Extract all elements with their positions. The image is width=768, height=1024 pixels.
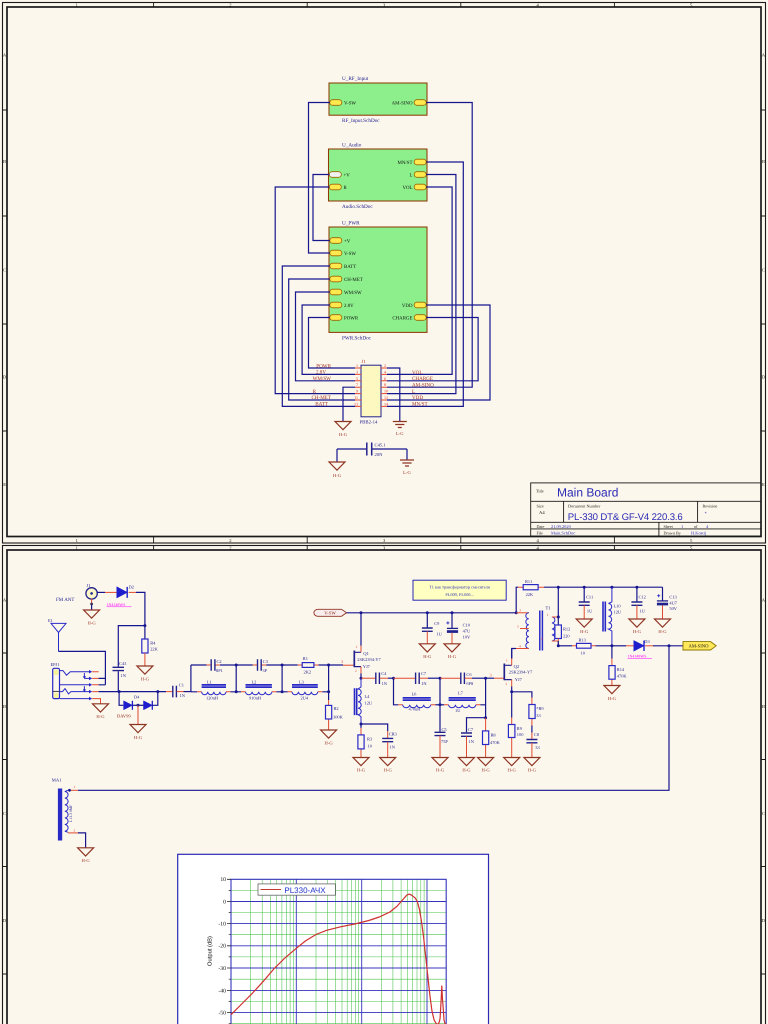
svg-text:470K: 470K xyxy=(490,740,501,745)
svg-text:1N: 1N xyxy=(121,673,127,678)
svg-text:C43: C43 xyxy=(119,661,127,666)
sheet entry AM-SINO on U_RF_Input xyxy=(392,100,427,107)
svg-text:V-SW: V-SW xyxy=(344,251,356,257)
svg-text:B: B xyxy=(3,159,6,164)
svg-text:C1: C1 xyxy=(179,683,184,688)
sheet entry VOL on U_Audio xyxy=(402,184,426,191)
svg-text:3: 3 xyxy=(519,608,521,612)
junction Q1 drain at rail xyxy=(360,611,363,614)
pin stub C11 bottom xyxy=(583,605,585,619)
wire +V net Audio to PWR xyxy=(313,175,330,241)
svg-text:3: 3 xyxy=(356,369,358,374)
wire AM-SINO down to MA1 xyxy=(78,646,669,791)
svg-text:11: 11 xyxy=(354,395,358,400)
svg-text:-10: -10 xyxy=(218,922,226,928)
ground H-G under C13 xyxy=(655,619,671,634)
svg-text:POWR: POWR xyxy=(316,363,331,369)
wire L6 left leg xyxy=(394,678,399,705)
svg-text:10: 10 xyxy=(220,877,226,883)
svg-text:C45.1: C45.1 xyxy=(375,443,387,448)
svg-text:H-G: H-G xyxy=(423,654,432,659)
wire L7 right leg xyxy=(480,678,485,718)
wire CHARGE net to J1 pin6 xyxy=(387,318,478,381)
wire C45.1 right xyxy=(372,449,407,460)
inductor L10 xyxy=(603,587,622,646)
junction C11 at top rail xyxy=(583,586,586,589)
J1 pin stubs xyxy=(355,368,387,406)
wire C1 to filter xyxy=(184,691,191,693)
svg-text:V-SW: V-SW xyxy=(344,101,356,107)
svg-text:1N: 1N xyxy=(382,681,388,686)
svg-text:C5: C5 xyxy=(442,727,448,732)
J1 left net labels xyxy=(311,363,331,407)
junction L6/L7 bottom xyxy=(439,703,442,706)
capacitor C3 xyxy=(253,659,269,673)
resistor R2 xyxy=(326,700,344,730)
svg-text:2: 2 xyxy=(384,363,386,368)
pin stub T1 pin4 xyxy=(516,648,529,650)
svg-text:12: 12 xyxy=(384,395,388,400)
svg-text:Sheet: Sheet xyxy=(664,524,674,529)
svg-text:1: 1 xyxy=(74,785,76,789)
svg-text:6: 6 xyxy=(384,376,386,381)
svg-text:R13: R13 xyxy=(579,637,587,642)
sheet entry 2.8V on U_PWR xyxy=(330,302,354,309)
pin stub C12 bottom xyxy=(636,605,638,619)
svg-text:EPJ1: EPJ1 xyxy=(51,662,60,667)
ground H-G under C5 xyxy=(432,758,448,773)
junction R11 rail at T1 branch xyxy=(557,586,560,589)
pin stub MA1 pin1 xyxy=(68,789,78,791)
pin stub C4 left xyxy=(361,677,375,679)
pin stub C7 series left xyxy=(394,677,416,679)
ground H-G under EPJ1 xyxy=(93,704,109,719)
wire BATT net to J1 pin13 xyxy=(282,266,355,406)
sheet entry WM/SW on U_PWR xyxy=(330,289,362,296)
svg-text:H-G: H-G xyxy=(608,696,617,701)
chart major grid blue xyxy=(231,879,446,1024)
ground H-G under R14 xyxy=(604,686,620,701)
wire VDD net to J1 pin12 xyxy=(387,305,490,400)
sheet entry L on U_Audio xyxy=(410,172,427,179)
svg-text:PBB2-14: PBB2-14 xyxy=(360,420,378,426)
svg-text:R11: R11 xyxy=(525,579,532,584)
svg-text:L2: L2 xyxy=(252,680,257,685)
inductor L1 xyxy=(197,680,230,701)
svg-text:MA1: MA1 xyxy=(52,778,62,783)
capacitor C43 xyxy=(113,661,128,678)
junction at C43 top xyxy=(143,624,146,627)
svg-text:WM/SW: WM/SW xyxy=(313,376,332,382)
capacitor C2 xyxy=(207,659,223,673)
junction L6 left top xyxy=(392,677,395,680)
chart curve PL330 AFC xyxy=(231,894,446,1024)
wire BAV99 left leg xyxy=(119,692,123,706)
ground H-G under R2 xyxy=(321,730,337,746)
svg-text:Revision: Revision xyxy=(703,503,719,508)
page1 wires xyxy=(275,103,490,422)
svg-text:H-G: H-G xyxy=(384,768,393,773)
svg-text:PWR.SchDoc: PWR.SchDoc xyxy=(342,336,372,342)
svg-text:*R9: *R9 xyxy=(536,706,544,711)
wire filter stage verticals xyxy=(236,665,328,700)
svg-text:L4: L4 xyxy=(365,694,371,699)
svg-text:H-G: H-G xyxy=(448,654,457,659)
svg-text:BAV99: BAV99 xyxy=(117,714,131,719)
inductor L4 xyxy=(355,678,373,724)
svg-text:C7: C7 xyxy=(468,727,474,732)
svg-text:H-G: H-G xyxy=(482,768,491,773)
sheet symbol U_RF_Input xyxy=(329,76,427,124)
svg-text:8: 8 xyxy=(384,382,386,387)
svg-text:50V: 50V xyxy=(669,606,677,611)
svg-text:D2: D2 xyxy=(129,585,134,590)
svg-text:C13: C13 xyxy=(669,595,677,600)
pin stub C8 bottom xyxy=(531,743,533,758)
capacitor C1 xyxy=(173,683,186,699)
capacitor C12 xyxy=(631,587,645,613)
svg-text:H-G: H-G xyxy=(580,629,589,634)
svg-text:100: 100 xyxy=(517,732,524,737)
transistor Q2 2SK2394-Y7 xyxy=(504,649,533,692)
wire J1 to D2 xyxy=(97,591,105,593)
sheet entry CH-MET on U_PWR xyxy=(330,276,363,283)
note box T1 mixer transformer xyxy=(413,580,506,600)
svg-text:PL330-АЧХ: PL330-АЧХ xyxy=(284,886,326,895)
svg-text:H-G: H-G xyxy=(633,629,642,634)
diode D4 BAV99 xyxy=(117,695,152,719)
svg-text:2.8V: 2.8V xyxy=(344,303,354,309)
svg-text:1N: 1N xyxy=(180,693,186,698)
capacitor C9 xyxy=(422,613,443,637)
wire L4 bottom to CR3 xyxy=(361,724,388,731)
svg-text:H.Kostrj: H.Kostrj xyxy=(691,530,706,535)
capacitor C5 xyxy=(435,727,449,744)
wire Q2 source to R9b branch xyxy=(512,692,532,698)
svg-text:L: L xyxy=(410,173,413,179)
junction C12 at top rail xyxy=(635,586,638,589)
svg-text:-40: -40 xyxy=(218,988,226,994)
svg-text:YJ7: YJ7 xyxy=(515,677,523,682)
svg-text:2K2: 2K2 xyxy=(304,670,312,675)
sheet entry V-SW on U_RF_Input xyxy=(330,100,357,107)
pin stub T1 pin5 xyxy=(520,628,529,630)
svg-text:A4: A4 xyxy=(539,510,545,515)
svg-text:File: File xyxy=(537,530,544,535)
earphone jack EPJ1 xyxy=(51,662,93,700)
svg-text:MN/ST: MN/ST xyxy=(412,402,428,408)
junction rail to R11/T1 xyxy=(515,611,518,614)
svg-text:H-G: H-G xyxy=(82,858,91,863)
svg-text:L6: L6 xyxy=(412,691,418,696)
power port V-SW xyxy=(314,609,347,616)
capacitor C4 xyxy=(376,671,388,686)
wire EPJ1 row2/row3 to antenna vertical xyxy=(99,678,106,684)
svg-text:5: 5 xyxy=(356,376,358,381)
chart y axis ticks xyxy=(227,879,231,1012)
wire filter bottom rail xyxy=(191,691,329,693)
svg-text:2SK2394-Y7: 2SK2394-Y7 xyxy=(357,657,381,662)
connector J1 FM ANT xyxy=(56,583,97,603)
sheet entry CHARGE on U_PWR xyxy=(392,315,426,322)
ground H-G under D4 xyxy=(130,725,146,741)
svg-text:C6: C6 xyxy=(466,672,472,677)
svg-text:V-SW: V-SW xyxy=(324,611,336,617)
resistor R3 xyxy=(358,724,373,758)
ground H-G under J1 pin7 xyxy=(335,422,351,438)
sheet entry VDD on U_PWR xyxy=(402,302,426,309)
wire C45.1 left xyxy=(337,449,366,462)
svg-text:VOL: VOL xyxy=(402,185,412,191)
svg-text:L10: L10 xyxy=(614,603,622,608)
svg-text:CH-MET: CH-MET xyxy=(311,395,331,401)
pin stub C4 right xyxy=(380,677,388,679)
capacitor C45.1 xyxy=(367,443,387,458)
svg-text:10V: 10V xyxy=(463,634,471,639)
magnetic antenna MA1 xyxy=(52,778,76,841)
svg-text:22K: 22K xyxy=(526,592,534,597)
capacitor C10 electrolytic xyxy=(446,613,471,640)
svg-text:CHARGE: CHARGE xyxy=(412,376,433,382)
svg-text:RF_Input.SchDoc: RF_Input.SchDoc xyxy=(342,118,380,124)
pin dot under J1 xyxy=(90,603,93,606)
J1 pin numbers xyxy=(354,363,388,406)
ground L-G under J1 pin2 xyxy=(393,422,407,437)
svg-text:R14: R14 xyxy=(617,667,625,672)
svg-text:R1: R1 xyxy=(303,656,308,661)
svg-text:B: B xyxy=(762,704,765,709)
wire V-SW rail xyxy=(347,612,517,614)
inductor L7 xyxy=(444,691,480,714)
wire filter input vertical xyxy=(190,665,192,692)
ground H-G under R4 xyxy=(137,666,153,682)
pin stub C1 right xyxy=(177,691,184,693)
svg-text:CH-MET: CH-MET xyxy=(344,277,363,283)
wire C6 to node 3 xyxy=(472,677,486,679)
svg-text:12U: 12U xyxy=(365,701,373,706)
svg-text:E: E xyxy=(3,482,6,487)
ground H-G under C8 xyxy=(524,758,540,773)
svg-text:VDD: VDD xyxy=(412,395,423,401)
svg-text:1: 1 xyxy=(356,363,358,368)
svg-text:D3: D3 xyxy=(644,639,650,644)
pin stub C6 left xyxy=(440,677,460,679)
svg-text:L3: L3 xyxy=(299,680,305,685)
resistor R11 xyxy=(518,579,544,597)
resistor R12 xyxy=(555,625,570,639)
svg-text:D4: D4 xyxy=(134,695,140,700)
svg-text:1: 1 xyxy=(547,613,549,617)
title block frame xyxy=(531,483,761,536)
svg-text:B: B xyxy=(3,704,6,709)
svg-text:R12: R12 xyxy=(563,626,570,631)
wire T1 pin2 joins R12 xyxy=(557,641,559,646)
junction node 3 right xyxy=(484,677,487,680)
pin stub T1 pin1 xyxy=(552,616,558,618)
capacitor C8 xyxy=(526,732,540,750)
wire J1 pin2 to L-G ground xyxy=(387,368,400,422)
svg-text:-30: -30 xyxy=(218,966,226,972)
svg-text:R: R xyxy=(313,389,317,395)
svg-text:2SK2394-Y7: 2SK2394-Y7 xyxy=(509,670,533,675)
svg-text:L1: L1 xyxy=(207,680,212,685)
resistor *R9 xyxy=(529,698,545,726)
pin stub D2 cathode xyxy=(129,591,137,593)
svg-text:B: B xyxy=(762,159,765,164)
pin stub C9 bottom xyxy=(426,631,428,644)
sheet symbol U_PWR xyxy=(329,221,427,342)
pin stub CR3 bottom xyxy=(387,742,389,758)
wire C4 to node xyxy=(388,677,394,679)
svg-text:470K: 470K xyxy=(617,673,628,678)
svg-text:U_RF_Input: U_RF_Input xyxy=(342,76,369,82)
wire T1 pin4 to Q2 drain xyxy=(512,649,516,659)
sheet entry R on U_Audio xyxy=(329,184,347,191)
svg-text:Date: Date xyxy=(537,524,545,529)
svg-text:BATT: BATT xyxy=(315,402,329,408)
svg-text:2: 2 xyxy=(74,829,76,833)
junction L6/L7 top xyxy=(439,677,442,680)
svg-text:C4: C4 xyxy=(381,671,387,676)
inductor L2 xyxy=(241,680,276,701)
antenna E1 xyxy=(48,618,66,652)
wire MA1 pin2 to ground xyxy=(78,833,86,848)
svg-text:L: L xyxy=(412,389,415,395)
PAGE 2 background xyxy=(0,544,768,1024)
ground H-G under C10 xyxy=(444,644,460,659)
svg-text:AM-SINO: AM-SINO xyxy=(392,101,413,107)
PAGE 1 background xyxy=(0,0,768,544)
svg-text:1U: 1U xyxy=(455,708,461,713)
svg-text:1N: 1N xyxy=(390,745,396,750)
svg-text:1N: 1N xyxy=(421,681,427,686)
junction C43 tip row xyxy=(118,690,121,693)
wire D2 to R4 xyxy=(136,592,145,639)
hidden net label under D3 xyxy=(628,654,653,659)
svg-text:1U: 1U xyxy=(436,632,442,637)
svg-text:*: * xyxy=(705,511,707,517)
svg-text:Drawn By: Drawn By xyxy=(664,530,682,535)
wire BAV99 center to ground xyxy=(137,705,139,724)
svg-text:2: 2 xyxy=(506,682,508,686)
svg-text:AM-SINO: AM-SINO xyxy=(412,382,434,388)
svg-text:Main Board: Main Board xyxy=(557,486,618,500)
wire T1 pin1 to R12 node xyxy=(557,587,559,625)
connector J1 (PBB2-14) body xyxy=(360,359,382,425)
svg-text:5: 5 xyxy=(517,625,519,629)
svg-text:H-G: H-G xyxy=(528,768,537,773)
chart legend xyxy=(258,884,335,895)
junction C9 at rail xyxy=(426,611,429,614)
ground H-G under J1 FM ANT xyxy=(84,610,100,626)
pin stub C6 right xyxy=(465,677,472,679)
svg-text:PL600, PL660...: PL600, PL660... xyxy=(445,592,473,597)
svg-text:Size: Size xyxy=(537,503,544,508)
svg-text:2: 2 xyxy=(541,637,543,641)
sheet 2 inner border xyxy=(7,550,761,1024)
resistor R14 xyxy=(609,646,627,686)
wire AM-SINO net to J1 pin8 xyxy=(387,103,472,388)
svg-text:E: E xyxy=(762,482,765,487)
pin stub C13 bottom xyxy=(662,605,664,619)
junction Q2 source xyxy=(510,690,513,693)
capacitor C7 shunt xyxy=(461,727,475,744)
ground H-G under C11 xyxy=(576,619,592,634)
svg-text:H-G: H-G xyxy=(339,432,348,437)
svg-text:20N: 20N xyxy=(375,452,384,457)
svg-text:0: 0 xyxy=(223,899,226,905)
svg-text:R8: R8 xyxy=(491,732,497,737)
svg-text:H-G: H-G xyxy=(141,677,150,682)
hidden net label under D2 xyxy=(107,602,132,607)
svg-text:1N4148WS: 1N4148WS xyxy=(107,602,126,607)
capacitor C6 xyxy=(461,672,474,686)
svg-text:H-G: H-G xyxy=(508,768,517,773)
svg-text:H-G: H-G xyxy=(333,473,342,478)
pin stub Q1 gate xyxy=(343,664,354,666)
wire R13 to L10 node xyxy=(596,645,612,647)
wire EPJ1 tip row xyxy=(99,691,166,693)
svg-text:C: C xyxy=(762,811,765,816)
svg-text:Q2: Q2 xyxy=(514,664,520,669)
svg-text:CHARGE: CHARGE xyxy=(392,316,412,322)
svg-text:L-G: L-G xyxy=(396,431,404,436)
pin stub J1 shield xyxy=(91,599,93,605)
wire EPJ1 sleeve to ground xyxy=(92,699,100,704)
sheet entry V-SW on U_PWR xyxy=(330,250,357,257)
sheet 1 inner border xyxy=(7,7,761,537)
wire L6 to L7 bottom xyxy=(436,704,445,706)
sheet entry BATT on U_PWR xyxy=(330,263,356,270)
svg-text:CR3: CR3 xyxy=(389,731,398,736)
wire to D3 xyxy=(612,645,626,647)
wire C43 top to D2 node xyxy=(118,626,145,667)
sheet 1 zone ticks xyxy=(3,3,766,544)
pin stub C7 series right xyxy=(420,677,428,679)
svg-text:J1: J1 xyxy=(362,359,367,365)
pin stub R4 bottom xyxy=(144,653,146,666)
pin stub T1 pin3 xyxy=(516,612,529,614)
svg-text:1: 1 xyxy=(356,645,358,649)
svg-text:Main.SchDoc: Main.SchDoc xyxy=(551,530,575,535)
wire POWR net to J1 pin1 xyxy=(309,318,356,369)
svg-text:H-G: H-G xyxy=(357,768,366,773)
svg-text:1N: 1N xyxy=(469,739,475,744)
svg-text:22K: 22K xyxy=(150,647,158,652)
junction BAV99 right xyxy=(156,690,159,693)
capacitor C13 electrolytic xyxy=(657,587,678,611)
svg-text:4U7: 4U7 xyxy=(669,600,677,605)
wire to shunt C7 xyxy=(467,718,486,733)
svg-text:300K: 300K xyxy=(333,715,344,720)
J1 right net labels xyxy=(412,370,434,408)
svg-text:WM/SW: WM/SW xyxy=(344,290,362,296)
svg-text:R4: R4 xyxy=(150,641,156,646)
pin stub MA1 pin2 xyxy=(68,832,78,834)
svg-text:C: C xyxy=(3,268,6,273)
svg-text:L-G: L-G xyxy=(403,470,411,475)
ground H-G under C45.1 xyxy=(329,462,345,478)
svg-text:VOL: VOL xyxy=(412,370,422,376)
svg-text:MN/ST: MN/ST xyxy=(398,160,413,166)
wire MN/ST net to J1 pin14 xyxy=(387,162,463,406)
svg-text:2: 2 xyxy=(355,669,357,673)
svg-text:8P1: 8P1 xyxy=(216,668,223,673)
pin stub C7 shunt bottom xyxy=(466,736,468,757)
svg-text:AM-SINO: AM-SINO xyxy=(688,644,709,650)
ground H-G under R9 xyxy=(504,758,520,773)
junction R12/R13 xyxy=(557,644,560,647)
